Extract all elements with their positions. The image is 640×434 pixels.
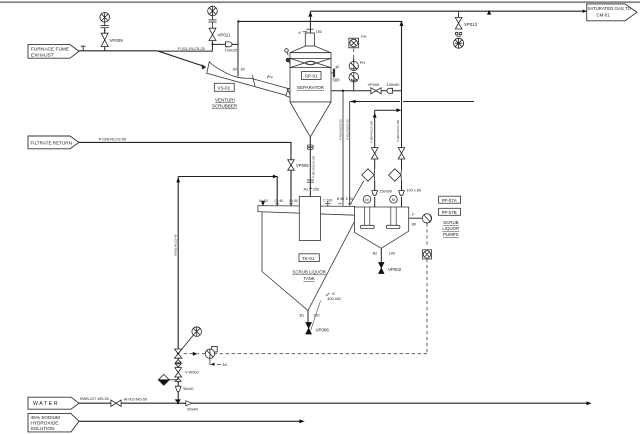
flow arrow water top run bbox=[273, 175, 278, 179]
svg-text:SOLUTION: SOLUTION bbox=[31, 426, 55, 431]
svg-text:C 100: C 100 bbox=[323, 198, 332, 202]
gauge PI below VP012 bbox=[454, 36, 464, 48]
valve VP009 bbox=[101, 33, 123, 46]
wire water riser top run to tank bbox=[178, 177, 277, 208]
wire pH signal dashed bbox=[353, 49, 355, 57]
junction dot recirc corner bbox=[237, 20, 239, 22]
valve on water line bbox=[111, 400, 121, 406]
junction dot pH line bbox=[342, 90, 344, 92]
svg-text:SATURATED GAS TO: SATURATED GAS TO bbox=[587, 6, 631, 11]
svg-text:W-002-MS-50: W-002-MS-50 bbox=[124, 397, 148, 401]
reducer 150x80 pump A bbox=[372, 189, 392, 195]
wire separator drain to tank bbox=[309, 137, 311, 197]
svg-text:100: 100 bbox=[313, 314, 319, 318]
svg-text:80: 80 bbox=[412, 222, 416, 226]
svg-text:50: 50 bbox=[269, 75, 273, 79]
svg-text:45% SODIUM: 45% SODIUM bbox=[31, 415, 61, 420]
wire furnace fume exhaust main line bbox=[79, 51, 205, 67]
wire riser to gas line bbox=[309, 11, 311, 33]
svg-text:PP-07B: PP-07B bbox=[442, 210, 457, 215]
wire sump F nozzle bbox=[409, 217, 423, 219]
wire saturated gas top line bbox=[310, 10, 582, 12]
wire venturi throat feed bbox=[237, 21, 239, 76]
svg-text:60: 60 bbox=[241, 68, 245, 72]
wire VP005 line separator to riser bbox=[331, 90, 402, 92]
svg-text:100x25: 100x25 bbox=[225, 49, 237, 53]
label SCRUB LIQUOR PUMPS bbox=[442, 220, 459, 237]
wire pump B riser bbox=[401, 91, 403, 207]
valve V W002 bbox=[175, 368, 199, 382]
svg-text:P-003-RLCS-250: P-003-RLCS-250 bbox=[312, 155, 316, 178]
tank nozzle labels bbox=[259, 197, 353, 203]
svg-text:N1 80: N1 80 bbox=[259, 199, 268, 203]
flow arrow up water riser bbox=[176, 177, 180, 182]
reducer 100x80 pump B bbox=[399, 189, 421, 196]
venturi scrubber VS-01 body bbox=[201, 61, 299, 100]
svg-text:A3: A3 bbox=[222, 362, 227, 367]
wire strainer blowdown leader bbox=[350, 181, 364, 205]
flag WATER bbox=[28, 397, 79, 409]
svg-text:P-009-RLCS-150: P-009-RLCS-150 bbox=[369, 120, 373, 143]
label A2 60 venturi feed bbox=[233, 68, 245, 72]
svg-text:50x40: 50x40 bbox=[187, 408, 197, 412]
valve VP005 bbox=[368, 82, 382, 94]
strainer diamond pump A bbox=[362, 169, 375, 182]
wire VP012 drop bbox=[458, 11, 460, 17]
svg-text:100: 100 bbox=[389, 252, 395, 256]
flow arrow on riser x401 bbox=[400, 21, 404, 27]
svg-text:W-001-RLCS-40: W-001-RLCS-40 bbox=[174, 234, 178, 256]
svg-text:P-026-RLCS-50: P-026-RLCS-50 bbox=[99, 136, 128, 141]
gauge PI above VP011 bbox=[208, 6, 218, 28]
wire tank N1 nozzle stub bbox=[262, 201, 264, 208]
svg-text:V W002: V W002 bbox=[185, 369, 199, 374]
wire P-011-RLCS-25 line bbox=[158, 40, 238, 51]
svg-text:100x50: 100x50 bbox=[387, 82, 401, 87]
junction dot water riser base bbox=[177, 402, 179, 404]
svg-text:400 x52: 400 x52 bbox=[327, 297, 341, 301]
sump F nozzle label bbox=[412, 213, 416, 226]
svg-text:250: 250 bbox=[313, 188, 319, 192]
wire scrub recirculation top run bbox=[238, 21, 401, 91]
valve pump A riser bbox=[371, 148, 378, 159]
svg-text:LIQUOR: LIQUOR bbox=[442, 226, 459, 231]
flow arrow on top gas line bbox=[487, 10, 491, 15]
flow arrow top of separator riser bbox=[308, 11, 312, 16]
wire sump B2 drain bbox=[380, 248, 382, 262]
separator drain flanges and label bbox=[304, 145, 319, 192]
signal arrow to A3 bbox=[193, 352, 198, 356]
label SP-01 bbox=[297, 30, 340, 90]
flag 45% SODIUM HYDROXIDE SOLUTION bbox=[28, 414, 79, 432]
svg-text:P-011-RLCS-25: P-011-RLCS-25 bbox=[178, 47, 205, 51]
instrument A3 solenoid circle bbox=[205, 346, 227, 367]
svg-text:VP005: VP005 bbox=[368, 82, 380, 87]
wire level signal dashed vertical bbox=[426, 223, 428, 354]
instrument LIC circle bbox=[192, 327, 202, 337]
svg-text:A2: A2 bbox=[233, 68, 238, 72]
svg-text:FURNACE FUME: FURNACE FUME bbox=[31, 47, 69, 53]
control valve on water riser bbox=[175, 335, 194, 358]
svg-text:G: G bbox=[332, 292, 335, 296]
drain diamond half filled bbox=[158, 374, 178, 385]
flow arrow into P-012 drop bbox=[350, 100, 355, 104]
top border line bbox=[0, 1, 640, 3]
svg-text:B2: B2 bbox=[373, 252, 378, 256]
svg-text:HYDROXIDE: HYDROXIDE bbox=[31, 421, 59, 426]
flag FURNACE FUME EXHAUST bbox=[28, 45, 79, 59]
pump sump vessel bbox=[354, 207, 408, 248]
reducer 100x25 bbox=[178, 42, 237, 53]
strainer diamond pump B bbox=[389, 169, 402, 182]
svg-text:EXHAUST: EXHAUST bbox=[31, 52, 54, 58]
label TK-01 bbox=[292, 254, 325, 281]
svg-text:VP011: VP011 bbox=[218, 32, 231, 37]
wire pump riser crossover bbox=[375, 109, 397, 111]
svg-text:A1: A1 bbox=[304, 188, 309, 192]
svg-text:B1: B1 bbox=[300, 314, 305, 318]
svg-text:B 50: B 50 bbox=[337, 197, 344, 201]
instrument pH sensor circles bbox=[349, 61, 365, 82]
pipe labels vertical bbox=[174, 119, 401, 256]
wire drop line P-010 to tank bbox=[342, 91, 344, 206]
instrument pH square shared display bbox=[349, 35, 367, 48]
svg-text:P-010-RLCS-50: P-010-RLCS-50 bbox=[339, 119, 343, 140]
wire VP009 branch bbox=[104, 29, 106, 51]
svg-text:VS-01: VS-01 bbox=[217, 85, 230, 90]
svg-text:CM-01: CM-01 bbox=[597, 12, 611, 17]
gauge PI above VP009 bbox=[100, 12, 110, 33]
svg-text:PH: PH bbox=[361, 35, 367, 39]
flag SATURATED GAS TO CM-01 bbox=[583, 4, 637, 21]
svg-text:VENTURI: VENTURI bbox=[215, 97, 235, 102]
flow arrow open on water line bbox=[186, 401, 192, 406]
wire level signal dashed horizontal bbox=[182, 353, 427, 355]
svg-text:VP009: VP009 bbox=[110, 38, 124, 43]
dashed signal lines bbox=[182, 49, 427, 354]
instrument LS interlock square bbox=[422, 250, 431, 259]
svg-text:M: M bbox=[392, 197, 395, 202]
svg-text:SCRUB LIQUOR: SCRUB LIQUOR bbox=[292, 270, 325, 275]
svg-text:M: M bbox=[365, 197, 368, 202]
label PP-07B bbox=[439, 208, 461, 215]
tank internal standpipe bbox=[299, 197, 320, 241]
vent stub on exhaust line bbox=[81, 46, 86, 51]
svg-text:PUMPS: PUMPS bbox=[443, 232, 459, 237]
arrow end of water line bbox=[587, 401, 592, 405]
label G 400x52 bbox=[326, 292, 341, 301]
union flanges below control valve bbox=[175, 360, 181, 367]
svg-text:150x80: 150x80 bbox=[379, 189, 391, 193]
nozzle flange ticks on tank top bbox=[275, 203, 351, 205]
svg-text:TANK: TANK bbox=[303, 276, 314, 281]
svg-text:100 x 80: 100 x 80 bbox=[406, 189, 421, 193]
sump B2 outlet label bbox=[373, 250, 395, 256]
svg-text:P-008-RLCS-150: P-008-RLCS-150 bbox=[396, 119, 400, 142]
water line labels bbox=[80, 397, 198, 412]
wire pump discharge header crossing bbox=[350, 101, 474, 103]
svg-text:SP-01: SP-01 bbox=[305, 74, 318, 79]
wire tank C nozzle stub bbox=[325, 202, 330, 208]
valve VP011 bbox=[209, 28, 231, 40]
svg-text:FILTRATE RETURN: FILTRATE RETURN bbox=[31, 140, 72, 145]
arrow end of caustic line bbox=[299, 419, 305, 423]
junction arrow into water line bbox=[175, 399, 181, 403]
wire pH sensor line bbox=[353, 57, 355, 90]
label PP-07A bbox=[439, 196, 461, 203]
svg-text:C2 40: C2 40 bbox=[275, 199, 284, 203]
svg-text:P-012-RLCS-50: P-012-RLCS-50 bbox=[345, 119, 349, 140]
valve VP006 (closed) bbox=[306, 323, 330, 335]
reducer 100x50 bbox=[387, 82, 401, 93]
wire tank B1 drain bbox=[307, 311, 309, 323]
svg-text:WATER: WATER bbox=[33, 401, 59, 407]
flow arrow up pump A riser bbox=[373, 113, 377, 118]
valve pump B riser bbox=[398, 148, 405, 159]
svg-text:50x40: 50x40 bbox=[183, 387, 193, 391]
valve VP012 bbox=[455, 17, 477, 34]
reducer 50x40 water riser bbox=[175, 386, 193, 391]
svg-text:PP-07A: PP-07A bbox=[442, 198, 457, 203]
wire drop line P-012 to tank bbox=[349, 102, 351, 206]
svg-text:500: 500 bbox=[333, 78, 341, 83]
svg-text:SCRUBBER: SCRUBBER bbox=[212, 104, 238, 109]
wire pump A riser bbox=[374, 110, 376, 207]
svg-text:PH: PH bbox=[360, 61, 366, 65]
wire caustic line bbox=[79, 420, 300, 422]
tank TK-01 outline bbox=[258, 206, 355, 311]
motor pump B bbox=[390, 196, 398, 204]
flag FILTRATE RETURN bbox=[28, 136, 79, 149]
flow arrow crossover to riser bbox=[397, 108, 402, 112]
svg-text:VP006: VP006 bbox=[316, 327, 330, 332]
svg-text:E 50: E 50 bbox=[346, 197, 353, 201]
label VS-01 bbox=[212, 83, 238, 108]
tank B1 outlet label bbox=[300, 301, 321, 331]
motor pump A bbox=[363, 196, 371, 204]
wire water riser bbox=[177, 177, 179, 403]
svg-text:RWB-227-MS-50: RWB-227-MS-50 bbox=[80, 397, 109, 401]
svg-text:150: 150 bbox=[316, 30, 322, 34]
svg-text:SEPARATOR: SEPARATOR bbox=[297, 85, 325, 90]
svg-text:VP002: VP002 bbox=[388, 267, 402, 272]
wire water main line bbox=[79, 402, 589, 404]
svg-text:SCRUB: SCRUB bbox=[443, 220, 458, 225]
wire filtrate return line bbox=[79, 142, 291, 207]
separator SP-01 vessel bbox=[285, 29, 337, 137]
svg-text:TK-01: TK-01 bbox=[302, 256, 315, 261]
valve VP002 (closed) bbox=[379, 263, 402, 274]
valve VP008 bbox=[288, 160, 310, 170]
svg-text:E1 50: E1 50 bbox=[290, 199, 299, 203]
svg-text:VP012: VP012 bbox=[464, 22, 478, 27]
svg-text:VP008: VP008 bbox=[296, 163, 309, 168]
instrument LG on sump bbox=[422, 214, 431, 223]
